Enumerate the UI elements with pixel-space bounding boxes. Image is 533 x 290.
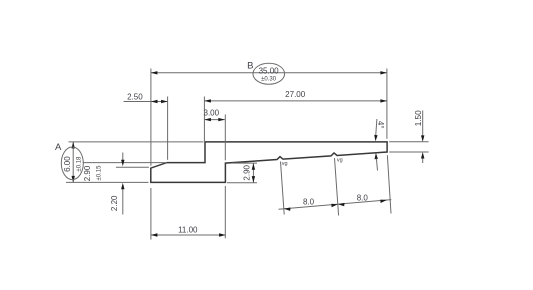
- text 3.00: [204, 109, 220, 118]
- extension line 2.90-right bottom y=182.7: [227, 182, 257, 184]
- extension line left end vertical x=150.9 upper: [150, 69, 152, 166]
- extension line bottom horizontal y=182.4: [66, 181, 149, 183]
- text 27.00: [285, 90, 306, 99]
- text 2.20 rotated: [110, 195, 119, 211]
- extension line right end vertical x=386.9: [386, 69, 388, 139]
- extension line chamfer vertical x=167.6: [167, 97, 169, 160]
- svg-text:2.20: 2.20: [110, 195, 119, 211]
- svg-text:2.90: 2.90: [83, 165, 92, 181]
- profile outline (part cross-section): [151, 142, 387, 183]
- extension line base-right vertical x=225.3 upper: [224, 115, 226, 161]
- extension line 2.90-right top y=163.1: [233, 162, 258, 164]
- dimension 2.90-left arrows: [121, 153, 124, 215]
- text ±0.30: [261, 76, 277, 82]
- svg-text:1.50: 1.50: [414, 110, 423, 126]
- svg-text:A: A: [55, 142, 62, 153]
- extension line notch2 slanted: [335, 158, 339, 216]
- svg-text:8.0: 8.0: [357, 194, 369, 203]
- svg-text:6.00: 6.00: [63, 156, 72, 172]
- ellipse around 35.00: [253, 63, 285, 84]
- svg-text:11.00: 11.00: [178, 225, 198, 234]
- label B: [247, 60, 253, 71]
- svg-text:±0.18: ±0.18: [77, 156, 83, 172]
- svg-text:35.00: 35.00: [259, 67, 280, 76]
- text ±0.15 rotated: [96, 165, 102, 181]
- svg-text:2.50: 2.50: [127, 93, 143, 102]
- extension line 1.50 top y=141.7: [389, 141, 428, 143]
- label A: [55, 142, 62, 153]
- extension line flange-left vertical x=204.4: [203, 97, 205, 142]
- text 6.00 rotated: [63, 156, 72, 172]
- dimension A 6.00 line: [72, 142, 75, 183]
- text 8.0 second: [357, 194, 369, 203]
- dimension 2.50 line: [124, 100, 168, 103]
- svg-text:B: B: [247, 60, 253, 71]
- extension line top horizontal y=141.9: [69, 141, 204, 143]
- svg-text:vg: vg: [337, 157, 343, 163]
- dimension 2.90-right line: [252, 163, 255, 182]
- svg-text:27.00: 27.00: [285, 90, 306, 99]
- dimension 8.0/8.0 slanted line: [279, 200, 392, 211]
- text 4 degrees rotated: [376, 121, 385, 129]
- text 2.50: [127, 93, 143, 102]
- svg-text:4°: 4°: [376, 121, 385, 129]
- label vg 1: [282, 161, 288, 167]
- extension line 2.20 top y=167.2: [116, 166, 149, 168]
- dimension 4 degree leader: [374, 119, 378, 171]
- extension line notch1 slanted: [281, 162, 285, 215]
- text 8.0 first: [303, 197, 315, 206]
- dimension 3.00 line: [204, 118, 224, 121]
- ellipse around 6.00: [61, 147, 83, 180]
- text 1.50 rotated: [414, 110, 423, 126]
- dimension 27.00 line: [204, 99, 387, 102]
- dimension 1.50 arrows: [421, 111, 424, 164]
- svg-text:3.00: 3.00: [204, 109, 220, 118]
- svg-text:±0.30: ±0.30: [261, 76, 277, 82]
- svg-text:8.0: 8.0: [303, 197, 315, 206]
- dimension B 35.00 line: [151, 71, 387, 74]
- svg-text:±0.15: ±0.15: [96, 165, 102, 181]
- dimension 11.00 line: [151, 233, 226, 236]
- svg-text:vg: vg: [282, 161, 288, 167]
- extension line left end vertical x=150.9 lower: [150, 188, 152, 240]
- text 35.00: [259, 67, 280, 76]
- extension line 1.50 bottom y=152.0: [389, 151, 428, 153]
- extension line base-right vertical x=225.3 lower: [224, 186, 226, 238]
- text 2.90 right rotated: [243, 164, 252, 180]
- extension line 8.0 right slanted: [387, 155, 391, 213]
- text 11.00: [178, 225, 198, 234]
- extension line 2.90-left top y=162.6: [83, 162, 167, 164]
- text 2.90 left rotated: [83, 165, 92, 181]
- text ±0.18 rotated: [77, 156, 83, 172]
- svg-text:2.90: 2.90: [243, 164, 252, 180]
- label vg 2: [337, 157, 343, 163]
